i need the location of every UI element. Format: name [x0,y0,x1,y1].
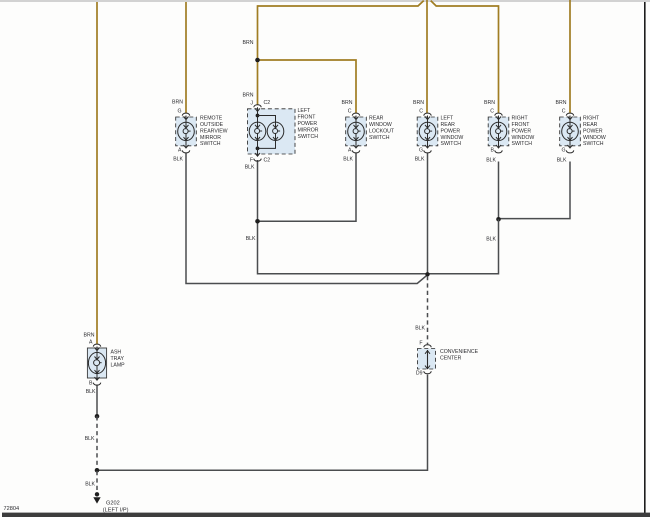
wire BLK dashed to G202 [96,471,98,493]
wire BRN vertical to remote mirror switch [185,2,187,113]
svg-text:SWITCH: SWITCH [298,134,319,140]
label LEFT FRONT POWER MIRROR SWITCH [298,108,319,140]
splice junction on BRN at left front mirror feed [255,58,260,63]
svg-text:BLK: BLK [343,157,353,163]
svg-text:BLK: BLK [85,482,95,488]
svg-text:REAR: REAR [369,115,384,121]
svg-text:G: G [177,109,181,115]
svg-text:ASH: ASH [111,350,122,356]
svg-text:WINDOW: WINDOW [512,135,535,141]
svg-text:LAMP: LAMP [111,363,126,369]
label REMOTE OUTSIDE REARVIEW MIRROR SWITCH [200,115,228,147]
svg-text:B: B [89,381,93,387]
main ground splice node [425,272,429,276]
wire BLK from left rear power window switch [427,153,429,274]
label CONVENIENCE CENTER [440,349,479,362]
svg-text:WINDOW: WINDOW [369,122,392,128]
switch U-LFPM LEFT FRONT POWER MIRROR SWITCH [248,105,296,161]
svg-text:A: A [178,147,182,153]
svg-text:WINDOW: WINDOW [441,135,464,141]
wire BRN vertical to ash tray lamp [96,2,98,345]
svg-text:C: C [490,109,494,115]
label ASH TRAY LAMP [111,350,126,369]
svg-text:BRN: BRN [172,99,183,105]
wire BLK from convenience center to ground run [97,375,428,471]
wire BLK right switches down to main splice [428,219,499,273]
label LEFT REAR POWER WINDOW SWITCH [441,115,464,147]
switch REMOTE OUTSIDE REARVIEW MIRROR SWITCH [176,113,197,153]
svg-text:LEFT: LEFT [298,108,312,114]
wire BLK from left front mirror switch down to main splice [258,160,428,274]
svg-text:G202: G202 [106,500,120,506]
label REAR WINDOW LOCKOUT SWITCH [369,115,395,140]
switch RIGHT REAR POWER WINDOW SWITCH [560,113,581,153]
wire BRN vertical to left rear power window switch [426,0,428,113]
svg-text:SWITCH: SWITCH [441,141,462,147]
svg-text:A: A [348,147,352,153]
wire BLK dashed mid ground run [96,416,98,469]
svg-text:BRN: BRN [243,40,254,46]
switch REAR WINDOW LOCKOUT SWITCH [346,113,367,153]
svg-text:CONVENIENCE: CONVENIENCE [440,349,479,355]
wire BLK dashed from main splice to convenience center [427,276,429,344]
wire BRN top-left feed with off-page diagonal [258,1,424,6]
svg-text:D9: D9 [416,370,423,376]
svg-text:POWER: POWER [512,128,532,134]
svg-text:C: C [562,109,566,115]
svg-text:MIRROR: MIRROR [298,127,319,133]
svg-text:POWER: POWER [583,128,603,134]
svg-text:G: G [561,147,565,153]
svg-text:MIRROR: MIRROR [200,135,221,141]
wire BLK from right rear power window switch [499,162,571,219]
top border band [0,0,650,2]
svg-text:BRN: BRN [84,332,95,338]
svg-text:C: C [419,109,423,115]
svg-text:RIGHT: RIGHT [512,115,529,121]
svg-text:J: J [250,100,253,106]
wire BLK from remote mirror switch to main splice [186,153,428,284]
svg-text:CENTER: CENTER [440,355,462,361]
splice of lockout and mirror switch grounds [255,219,260,224]
svg-text:(LEFT I/P): (LEFT I/P) [103,507,129,513]
splice below ash tray lamp [95,414,100,419]
svg-text:BLK: BLK [415,326,425,332]
wire BLK from right front power window switch [498,162,500,220]
svg-text:SWITCH: SWITCH [512,141,533,147]
svg-text:BLK: BLK [246,236,256,242]
svg-text:SWITCH: SWITCH [583,141,604,147]
wire BRN vertical to right rear power window switch [569,0,571,113]
svg-text:REARVIEW: REARVIEW [200,128,228,134]
svg-text:LOCKOUT: LOCKOUT [369,128,395,134]
svg-text:A: A [89,340,93,346]
bottom border band [2,513,650,517]
right border line [644,2,646,513]
svg-text:BLK: BLK [173,156,183,162]
svg-text:BLK: BLK [486,237,496,243]
svg-text:G: G [419,147,423,153]
svg-text:SWITCH: SWITCH [369,135,390,141]
svg-text:BRN: BRN [556,100,567,106]
splice of right window switch grounds [496,217,501,222]
svg-text:POWER: POWER [298,121,318,127]
svg-text:BLK: BLK [245,165,255,171]
wire BRN branch to rear window lockout switch [258,60,357,113]
wire BLK from rear window lockout switch [258,153,357,222]
svg-text:RIGHT: RIGHT [583,115,600,121]
svg-text:BLK: BLK [486,158,496,164]
svg-text:F: F [250,157,253,163]
wire BRN drop to left front power mirror switch [257,5,259,105]
splice at ground run corner [95,468,100,473]
svg-text:BLK: BLK [557,158,567,164]
svg-text:LEFT: LEFT [441,115,455,121]
svg-text:SWITCH: SWITCH [200,141,221,147]
label RIGHT REAR POWER WINDOW SWITCH [583,115,606,147]
svg-text:BLK: BLK [86,389,96,395]
svg-text:72804: 72804 [4,506,20,512]
wire BRN top-right feed with off-page diagonal [431,1,499,113]
switch RIGHT FRONT POWER WINDOW SWITCH [488,113,509,153]
svg-text:BRN: BRN [413,100,424,106]
svg-text:TRAY: TRAY [111,356,125,362]
svg-text:REAR: REAR [441,122,456,128]
lamp ASH TRAY LAMP [87,344,106,385]
label RIGHT FRONT POWER WINDOW SWITCH [512,115,535,147]
svg-text:REAR: REAR [583,122,598,128]
ground G202 symbol [93,492,100,504]
switch LEFT REAR POWER WINDOW SWITCH [417,113,438,153]
connector CONVENIENCE CENTER [418,345,436,374]
svg-text:BRN: BRN [342,100,353,106]
svg-text:FRONT: FRONT [298,115,317,121]
svg-text:WINDOW: WINDOW [583,135,606,141]
svg-text:FRONT: FRONT [512,122,531,128]
svg-text:BRN: BRN [243,93,254,99]
svg-text:F: F [419,341,422,347]
wire BLK from ash tray lamp [96,385,98,417]
svg-text:C: C [348,109,352,115]
svg-text:C2: C2 [264,100,271,106]
svg-text:C2: C2 [264,157,271,163]
svg-text:BRN: BRN [484,100,495,106]
svg-text:BLK: BLK [415,157,425,163]
svg-text:REMOTE: REMOTE [200,115,223,121]
svg-text:B: B [491,147,495,153]
svg-text:BLK: BLK [85,436,95,442]
svg-text:OUTSIDE: OUTSIDE [200,122,224,128]
svg-text:POWER: POWER [441,128,461,134]
